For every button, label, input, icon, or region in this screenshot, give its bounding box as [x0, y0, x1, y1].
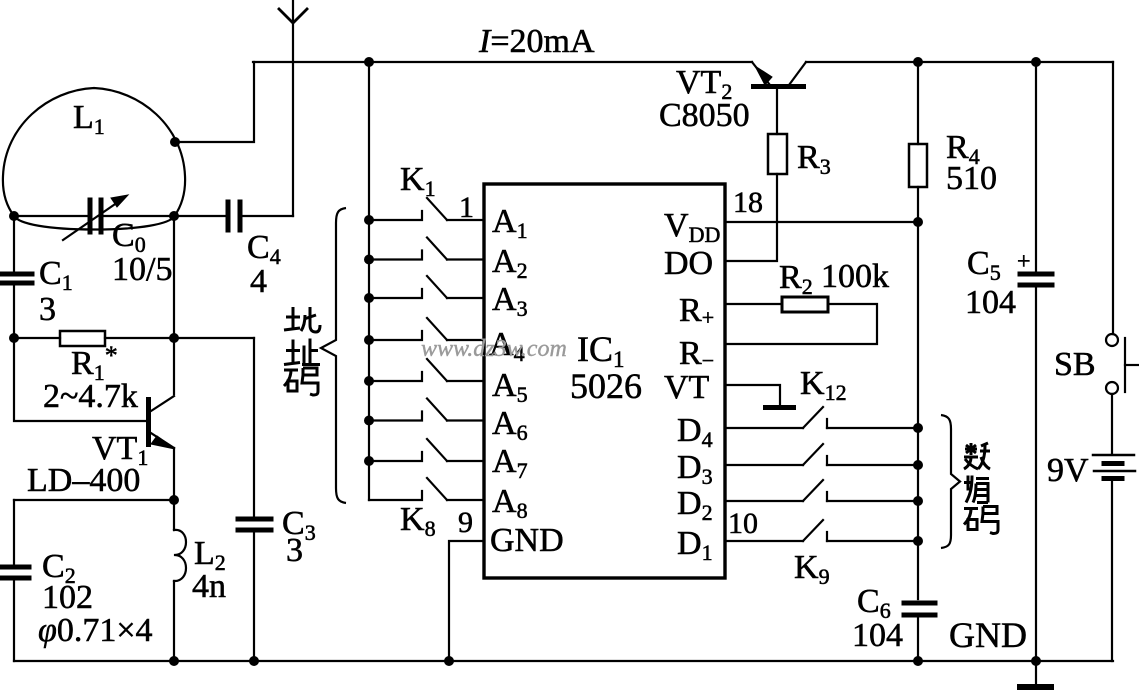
- chinese label address code (di zhi ma): [284, 307, 320, 395]
- node R4 top: [913, 57, 923, 67]
- wire center vertical C0 node to collector: [173, 216, 175, 394]
- switch K3: [369, 276, 484, 298]
- brace data code: [941, 415, 960, 548]
- wire left branch lower to C2: [13, 500, 15, 564]
- wire SB to battery: [1111, 394, 1113, 453]
- svg-text:10: 10: [728, 507, 758, 540]
- wire C5 branch lower: [1035, 288, 1037, 661]
- wire C2 to bottom rail: [13, 581, 15, 661]
- junction K4: [364, 335, 374, 345]
- svg-text:104: 104: [852, 617, 903, 654]
- svg-text:+: +: [1017, 249, 1031, 275]
- wire R1 row right: [105, 337, 174, 339]
- switch K6: [369, 399, 484, 421]
- wire emitter node left: [14, 499, 174, 501]
- svg-text:102: 102: [42, 579, 93, 616]
- capacitor C0: [90, 200, 101, 232]
- svg-text:φ0.71×4: φ0.71×4: [38, 612, 153, 649]
- svg-text:100k: 100k: [821, 258, 889, 295]
- svg-text:9V: 9V: [1047, 452, 1089, 489]
- junction D3: [913, 460, 923, 470]
- capacitor C5: [1020, 274, 1052, 285]
- antenna: [279, 0, 307, 216]
- wire emitter node to L2: [173, 500, 175, 530]
- junction K7: [364, 456, 374, 466]
- svg-text:C8050: C8050: [659, 97, 750, 134]
- wire VT1 emitter down: [173, 448, 175, 500]
- junction L2 ground: [169, 656, 179, 666]
- capacitor C2: [0, 567, 29, 578]
- junction D2: [913, 496, 923, 506]
- junction K3: [364, 293, 374, 303]
- switch K12 (D4 row): [725, 407, 918, 428]
- battery 9V: [1093, 455, 1135, 479]
- capacitor C4: [228, 202, 240, 230]
- node bus-to-rail: [364, 57, 374, 67]
- wire address bus riser: [368, 62, 370, 500]
- svg-text:VT: VT: [664, 369, 710, 406]
- junction D1: [913, 536, 923, 546]
- svg-text:18: 18: [733, 186, 763, 219]
- switch K4: [369, 318, 484, 340]
- svg-text:4n: 4n: [192, 568, 226, 605]
- resistor R3: [768, 134, 787, 174]
- svg-text:10/5: 10/5: [112, 251, 172, 288]
- svg-text:510: 510: [946, 160, 997, 197]
- svg-text:SB: SB: [1054, 346, 1096, 383]
- switch D2 row: [725, 480, 918, 501]
- junction K5: [364, 376, 374, 386]
- wire bottom ground rail: [14, 660, 1113, 662]
- node VT1 emitter / L2: [169, 495, 179, 505]
- switch K2: [369, 238, 484, 260]
- wire C6 to bottom rail: [917, 618, 919, 661]
- wire DO pin to R3: [725, 174, 777, 261]
- switch K5: [369, 359, 484, 381]
- wire left branch C1 lower to R1 node: [13, 286, 15, 338]
- wire left branch C1 upper: [13, 216, 15, 271]
- node C5 top: [1031, 57, 1041, 67]
- IC1 body: [484, 184, 725, 578]
- wire L1 bottom chord right: [104, 215, 174, 217]
- capacitor C3: [238, 519, 271, 530]
- wire R2 loop to R- pin: [725, 304, 877, 344]
- wire R+ pin to R2: [725, 303, 782, 305]
- switch K1: [369, 198, 484, 220]
- junction D4: [913, 423, 923, 433]
- resistor R1: [60, 331, 105, 346]
- ground symbol: [1017, 661, 1054, 690]
- svg-text:I=20mA: I=20mA: [478, 23, 595, 60]
- wire C0 node to C4: [174, 215, 226, 217]
- wire C3 branch upper: [253, 338, 255, 516]
- transistor VT1: [146, 396, 175, 449]
- svg-text:3: 3: [286, 532, 303, 569]
- svg-text:www.dz3w.com: www.dz3w.com: [421, 336, 567, 362]
- arrow of variable capacitor C0: [63, 195, 128, 240]
- switch K8: [369, 478, 484, 500]
- node R1 right / collector: [169, 333, 179, 343]
- svg-text:104: 104: [965, 284, 1016, 321]
- svg-text:1: 1: [459, 191, 474, 224]
- svg-text:3: 3: [39, 291, 56, 328]
- switch D3 row: [725, 444, 918, 465]
- node L1 left / C1: [9, 211, 19, 221]
- svg-text:2~4.7k: 2~4.7k: [43, 378, 138, 415]
- svg-text:5026: 5026: [570, 366, 642, 406]
- svg-text:LD–400: LD–400: [27, 462, 140, 499]
- resistor R4: [909, 144, 927, 187]
- wire left branch to VT1 base: [14, 338, 146, 421]
- switch K9 (D1 row): [725, 520, 918, 541]
- brace address code: [321, 208, 346, 503]
- resistor R2: [782, 297, 828, 312]
- pushbutton SB: [1106, 334, 1138, 394]
- svg-text:4: 4: [250, 263, 267, 300]
- wire top supply rail left segment: [253, 61, 752, 63]
- wire R1 node to C3 branch: [174, 337, 254, 339]
- junction IC GND: [444, 656, 454, 666]
- wire C5 branch upper: [1035, 62, 1037, 272]
- wire C3 branch lower: [253, 533, 255, 661]
- wire R1 row left: [14, 337, 60, 339]
- inductor L2: [174, 530, 186, 581]
- transistor VT2: [751, 62, 806, 89]
- coil L1: [3, 88, 185, 230]
- junction C3 ground: [249, 656, 259, 666]
- node VDD / R4: [913, 217, 923, 227]
- wire VDD pin 18 to R4 node: [725, 221, 918, 223]
- wire R4 to VDD node and data bus: [917, 187, 919, 599]
- wire R3 to VT2 base: [776, 89, 778, 134]
- svg-text:DO: DO: [664, 245, 713, 282]
- wire VT pin to K12 contact: [725, 385, 780, 405]
- wire L1 tap to rail: [175, 62, 254, 142]
- capacitor C1: [0, 274, 32, 283]
- svg-text:GND: GND: [490, 522, 564, 559]
- wire L1 bottom chord left: [14, 215, 87, 217]
- node C0 / C4: [169, 211, 179, 221]
- junction C6 ground: [913, 656, 923, 666]
- wire GND pin 9: [449, 541, 484, 661]
- svg-text:9: 9: [458, 506, 473, 539]
- K12 contact plate: [763, 405, 796, 410]
- svg-text:GND: GND: [949, 615, 1027, 655]
- wire L2 to bottom rail: [173, 581, 175, 661]
- capacitor C6: [904, 603, 935, 615]
- wire R4 branch upper: [917, 62, 919, 144]
- junction K6: [364, 416, 374, 426]
- wire right rail upper: [1112, 62, 1114, 334]
- junction K1: [364, 215, 374, 225]
- chinese label data code (shu ju ma): [964, 443, 998, 534]
- wire battery to bottom rail: [1111, 481, 1113, 661]
- node R1 left: [9, 333, 19, 343]
- wire top supply rail right segment: [806, 61, 1113, 63]
- switch K7: [369, 439, 484, 461]
- junction C5 ground: [1031, 656, 1041, 666]
- node L1 tap: [170, 137, 180, 147]
- junction K2: [364, 255, 374, 265]
- wire C4 to antenna line: [242, 215, 293, 217]
